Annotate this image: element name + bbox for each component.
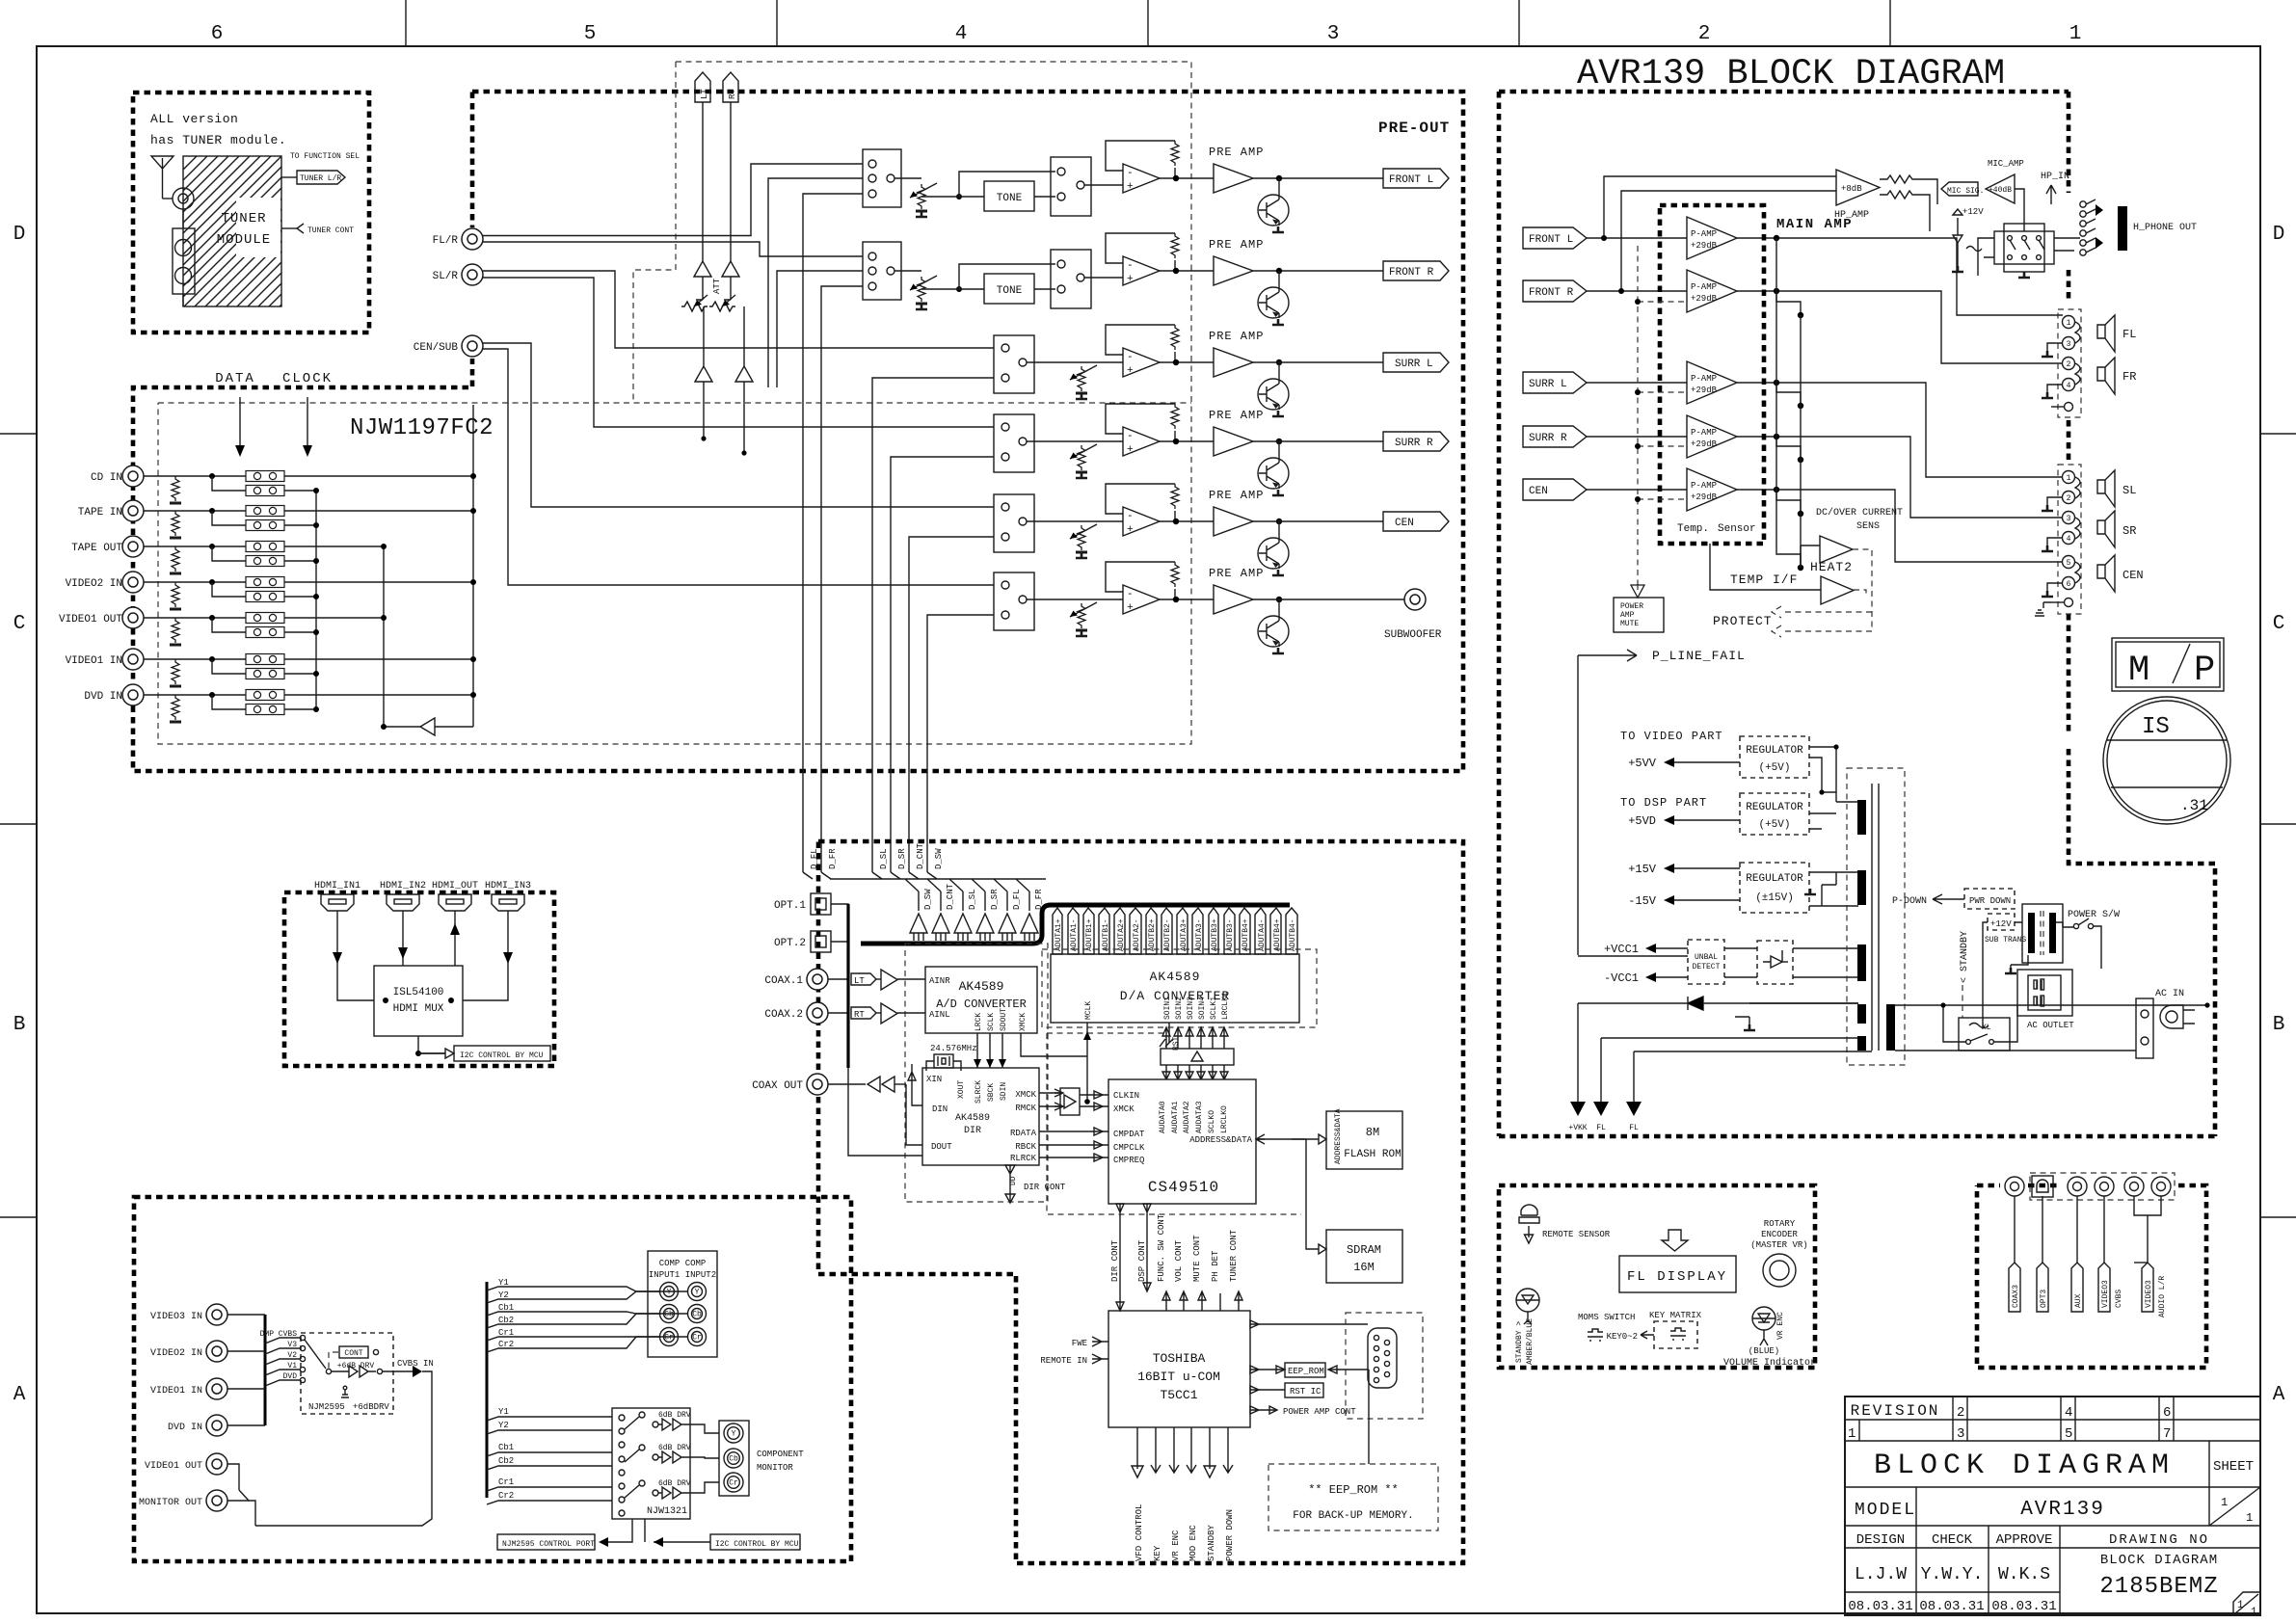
svg-text:W.K.S: W.K.S <box>1998 1565 2050 1584</box>
svg-text:+: + <box>1127 524 1134 536</box>
svg-text:P: P <box>2194 651 2215 691</box>
amplifier P-AMP <box>1687 361 1737 404</box>
svg-text:2185BEMZ: 2185BEMZ <box>2099 1574 2218 1600</box>
IC CS49510 DSP <box>1108 1079 1256 1204</box>
net flag SURR L <box>1523 372 1587 393</box>
svg-text:Cb2: Cb2 <box>498 1456 514 1466</box>
svg-text:2: 2 <box>2067 360 2071 369</box>
svg-text:OPT.2: OPT.2 <box>774 938 806 949</box>
svg-text:B: B <box>13 1014 26 1036</box>
svg-text:V2: V2 <box>287 1351 297 1360</box>
DSP section dashed enclosure <box>818 841 1463 1563</box>
COMP INPUT box <box>648 1251 717 1357</box>
pin DMP CVBS <box>300 1335 305 1340</box>
svg-text:2: 2 <box>1698 23 1711 45</box>
volume pot row SURR L <box>1076 366 1087 393</box>
input select switch row SUBW <box>994 572 1034 630</box>
svg-text:4: 4 <box>2065 1405 2072 1421</box>
svg-text:A/D CONVERTER: A/D CONVERTER <box>936 998 1027 1011</box>
svg-text:16M: 16M <box>1353 1261 1375 1274</box>
coupling links row VIDEO1 IN <box>246 654 284 665</box>
svg-text:VFD CONTROL: VFD CONTROL <box>1135 1504 1144 1561</box>
svg-text:+: + <box>1127 444 1134 456</box>
net label D_FR <box>821 872 831 879</box>
connector CEN/SUB <box>462 335 483 357</box>
svg-text:ADUTB2-: ADUTB2- <box>1163 918 1172 951</box>
svg-text:REGULATOR: REGULATOR <box>1746 873 1803 885</box>
dsp return wire <box>821 286 863 872</box>
connector OPT3 <box>2032 1176 2053 1197</box>
net flag LT <box>695 72 710 102</box>
svg-text:Y.W.Y.: Y.W.Y. <box>1921 1565 1984 1584</box>
connector COAX.2 <box>807 1002 828 1024</box>
svg-text:PWR DOWN: PWR DOWN <box>1969 896 2011 906</box>
connector DVD IN <box>122 684 144 705</box>
svg-text:+5VD: +5VD <box>1628 814 1656 828</box>
svg-text:COAX.1: COAX.1 <box>764 975 803 987</box>
COAX OUT buffers <box>828 1083 866 1085</box>
svg-text:TUNER: TUNER <box>221 211 266 226</box>
regulator +5V video <box>1740 736 1809 778</box>
svg-text:TUNER L/R: TUNER L/R <box>300 174 341 183</box>
hdmi wires <box>337 911 374 1000</box>
connector TAPE OUT <box>122 536 144 557</box>
svg-text:Cr: Cr <box>664 1334 674 1343</box>
svg-text:+12V: +12V <box>1990 919 2012 929</box>
svg-text:P-AMP: P-AMP <box>1691 229 1717 239</box>
svg-text:KEY: KEY <box>1153 1545 1162 1561</box>
amplifier P-AMP <box>1687 217 1737 259</box>
volume pot row FRONT L <box>916 184 927 211</box>
svg-text:BLOCK DIAGRAM: BLOCK DIAGRAM <box>2100 1553 2218 1568</box>
net flag SURR R <box>1383 432 1449 451</box>
pin flag ADUTB1+ <box>1083 908 1094 954</box>
DA converter dashed outline <box>1042 949 1317 1027</box>
antenna <box>151 156 174 169</box>
rectifier diode box <box>1757 941 1793 984</box>
pin V2 <box>300 1356 305 1361</box>
PWR DOWN dashed box <box>1964 889 2015 909</box>
svg-text:SURR R: SURR R <box>1395 438 1433 449</box>
secondary wires <box>1895 1005 2207 1051</box>
svg-text:+29dB: +29dB <box>1691 241 1718 251</box>
svg-text:CONT: CONT <box>344 1349 362 1358</box>
svg-text:ATT: ATT <box>712 278 722 294</box>
connector V3A <box>2124 1177 2144 1196</box>
wire to p-amp <box>1587 436 1687 438</box>
connector SUBWOOFER <box>1404 589 1426 610</box>
svg-text:3: 3 <box>1327 23 1340 45</box>
pin V3 <box>300 1345 305 1350</box>
IC SDRAM 16M <box>1326 1230 1402 1283</box>
POWER AMP MUTE box <box>1637 584 1639 591</box>
coupling links row VIDEO1 OUT <box>246 613 284 624</box>
svg-text:XIN: XIN <box>926 1075 942 1084</box>
svg-text:+15V: +15V <box>1628 863 1657 876</box>
IC AK4589 A/D converter <box>925 967 1037 1033</box>
svg-text:SURR R: SURR R <box>1529 433 1567 444</box>
svg-text:Y: Y <box>667 1289 672 1297</box>
mute dashed net <box>1638 246 1687 584</box>
svg-text:FL/R: FL/R <box>433 235 459 247</box>
terminal 2 <box>2063 492 2075 504</box>
aux terminal <box>2065 403 2073 412</box>
svg-text:CMPREQ: CMPREQ <box>1113 1156 1144 1165</box>
amplifier P-AMP <box>1687 270 1737 312</box>
svg-text:FL: FL <box>1596 1124 1606 1132</box>
svg-text:SURR L: SURR L <box>1395 359 1433 370</box>
terminal 3 <box>2063 337 2075 350</box>
svg-text:D_SW: D_SW <box>923 889 933 910</box>
svg-text:POWER S/W: POWER S/W <box>2068 909 2120 920</box>
resistor row VIDEO2 IN <box>170 582 181 609</box>
svg-text:ADUTA3-: ADUTA3- <box>1195 918 1204 951</box>
feedback resistor row SUBW <box>1171 562 1179 587</box>
TUNER L/R flag <box>281 176 297 178</box>
wire row DVD IN <box>144 694 473 696</box>
connector COAX3 <box>2005 1177 2024 1196</box>
ANALOG SECTION OUTLINES <box>133 62 1463 771</box>
net label D_SW <box>927 872 937 879</box>
svg-text:SHEET: SHEET <box>2213 1459 2254 1475</box>
connector comp Cr2 <box>688 1328 707 1346</box>
XMCK wire <box>1021 1033 1087 1056</box>
signal P_LINE_FAIL <box>1578 650 1637 661</box>
connector monitor Y <box>724 1423 743 1443</box>
connector comp Y1 <box>660 1283 679 1301</box>
wire to p-amp <box>1587 290 1687 292</box>
svg-text:AK4589: AK4589 <box>1150 970 1201 984</box>
terminal 5 <box>2063 556 2075 569</box>
svg-text:PRE AMP: PRE AMP <box>1209 409 1264 422</box>
svg-text:Y1: Y1 <box>498 1407 509 1417</box>
buffer LT <box>881 970 897 990</box>
svg-text:HDMI_IN3: HDMI_IN3 <box>485 881 531 891</box>
FL DISPLAY dashed enclosure <box>1499 1185 1815 1368</box>
svg-text:AK4589: AK4589 <box>959 979 1004 994</box>
svg-text:VR ENC: VR ENC <box>1171 1530 1181 1561</box>
signal VFD CONTROL <box>1132 1427 1143 1477</box>
LT flag <box>851 973 876 985</box>
volume pot row FRONT R <box>916 277 927 304</box>
terminal 2 <box>2063 358 2075 370</box>
svg-text:ADDRESS&DATA: ADDRESS&DATA <box>1189 1135 1252 1145</box>
svg-text:PRE AMP: PRE AMP <box>1209 489 1264 502</box>
svg-text:STANDBY: STANDBY <box>1207 1525 1216 1561</box>
volume pot row CEN <box>1076 525 1087 552</box>
net tag OPT3 <box>2042 1196 2043 1263</box>
pin flag ADUTB2- <box>1161 908 1172 954</box>
UNBAL DETECT <box>1688 940 1724 984</box>
TEMP I/F HEAT2 <box>1710 544 1821 590</box>
input select switch row FRONT R <box>863 242 901 300</box>
resistor row CD IN <box>170 476 181 503</box>
svg-text:3: 3 <box>2067 515 2071 523</box>
net label D_SL <box>872 872 882 879</box>
digital input bus <box>828 904 848 1013</box>
svg-text:FOR BACK-UP MEMORY.: FOR BACK-UP MEMORY. <box>1293 1510 1413 1522</box>
aux terminal 2 <box>2065 599 2073 607</box>
CS area dashed outline <box>1047 1033 1301 1214</box>
svg-text:SLRCK: SLRCK <box>974 1080 983 1104</box>
connector FL/R <box>462 228 483 250</box>
winding <box>1857 945 1866 981</box>
wire address bus <box>1256 1138 1319 1140</box>
svg-text:SUB TRANS: SUB TRANS <box>1985 936 2026 945</box>
svg-text:V1: V1 <box>287 1362 297 1370</box>
transformer core <box>1872 784 1879 1051</box>
relay block <box>1994 231 2054 264</box>
wire SL speaker <box>1779 383 2063 477</box>
connector VIDEO3 <box>2095 1177 2114 1196</box>
connector COAX.1 <box>807 969 828 990</box>
svg-text:ADUTB1-: ADUTB1- <box>1102 918 1110 951</box>
buffer transistor row SURR R <box>1278 441 1280 458</box>
DATA CLOCK labels and arrows <box>215 371 494 457</box>
svg-text:D_SL: D_SL <box>968 889 977 910</box>
net label D_CNT <box>909 872 919 879</box>
regulator +-15V <box>1740 863 1809 913</box>
svg-text:AUX: AUX <box>2074 1293 2083 1308</box>
svg-text:D_FL: D_FL <box>1012 889 1022 910</box>
amplifier P-AMP <box>1687 415 1737 458</box>
svg-text:AUDIO L/R: AUDIO L/R <box>2158 1276 2167 1317</box>
connector VIDEO3 IN <box>206 1304 227 1325</box>
svg-text:SUBWOOFER: SUBWOOFER <box>1384 629 1442 641</box>
svg-text:Cr2: Cr2 <box>498 1491 514 1501</box>
buffer RT <box>881 1003 897 1024</box>
svg-text:DC/OVER CURRENT: DC/OVER CURRENT <box>1816 507 1903 519</box>
svg-text:-VCC1: -VCC1 <box>1604 971 1639 985</box>
TUNER CONT <box>281 227 297 229</box>
svg-text:A: A <box>2273 1384 2285 1406</box>
input wires row FRONT R <box>483 242 863 256</box>
svg-text:P-AMP: P-AMP <box>1691 374 1717 384</box>
wire to p-amp <box>1587 489 1687 491</box>
control port wires <box>608 1519 645 1542</box>
wire to pot <box>1027 361 1081 363</box>
svg-text:TUNER CONT: TUNER CONT <box>1229 1229 1239 1282</box>
wire FRONT L to HP amp <box>1604 176 1836 238</box>
svg-text:C: C <box>2273 613 2285 635</box>
svg-text:STANDBY >: STANDBY > <box>1515 1321 1524 1363</box>
feedback resistor row CEN <box>1171 484 1179 509</box>
svg-text:COMPONENT: COMPONENT <box>757 1450 804 1459</box>
clock buffer <box>1060 1088 1080 1115</box>
svg-text:C: C <box>13 613 26 635</box>
pin flag ADUTB3+ <box>1209 908 1218 954</box>
svg-text:VOL CONT: VOL CONT <box>1174 1239 1184 1282</box>
svg-text:APPROVE: APPROVE <box>1996 1532 2053 1548</box>
svg-text:XL: XL <box>1982 1024 1991 1032</box>
top zone ticks <box>405 0 407 46</box>
svg-text:(+5V): (+5V) <box>1758 819 1790 831</box>
COMPONENT MONITOR connectors <box>719 1421 749 1496</box>
op-amp row SUBW <box>1123 585 1160 614</box>
wire to p-amp <box>1587 382 1687 384</box>
svg-text:+8dB: +8dB <box>1841 184 1862 194</box>
svg-text:AK4589: AK4589 <box>955 1113 990 1124</box>
FL DISPLAY block <box>1619 1256 1736 1292</box>
driver buffers <box>332 1366 376 1377</box>
svg-text:HDMI_IN1: HDMI_IN1 <box>314 881 360 891</box>
svg-text:OPT3: OPT3 <box>2040 1290 2048 1308</box>
svg-text:DIR: DIR <box>964 1126 981 1136</box>
IC AK4589 DIR <box>922 1068 1039 1165</box>
wire row VIDEO1 OUT <box>144 617 384 619</box>
feedback resistor row SURR R <box>1171 404 1179 429</box>
svg-text:CLKIN: CLKIN <box>1113 1091 1139 1101</box>
IC NJW1321 <box>612 1408 690 1519</box>
buffer B1 <box>435 726 473 728</box>
buffer D_SL <box>954 914 972 933</box>
pin flag ADUTA1- <box>1068 908 1079 954</box>
svg-text:1: 1 <box>2067 474 2071 483</box>
wire to sdram <box>1306 1139 1319 1249</box>
svg-text:AUDATA1: AUDATA1 <box>1171 1101 1180 1133</box>
svg-text:AINL: AINL <box>929 1010 950 1020</box>
svg-text:(+5V): (+5V) <box>1758 762 1790 774</box>
wire AD pins down <box>977 1033 1002 1068</box>
svg-text:+: + <box>1127 274 1134 285</box>
svg-text:POWER: POWER <box>1620 602 1643 611</box>
svg-text:HEAT2: HEAT2 <box>1810 560 1853 574</box>
terminal 4 <box>2063 532 2075 545</box>
svg-text:DRAWING NO: DRAWING NO <box>2109 1532 2209 1548</box>
svg-text:VOLUME Indicator: VOLUME Indicator <box>1723 1357 1816 1369</box>
svg-text:+29dB: +29dB <box>1691 439 1718 449</box>
svg-text:1: 1 <box>1848 1426 1855 1442</box>
svg-text:8M: 8M <box>1366 1126 1379 1139</box>
pin V1 <box>300 1367 305 1371</box>
svg-text:L.J.W: L.J.W <box>1855 1565 1907 1584</box>
node bus vertical x=398 <box>383 546 385 727</box>
feedback resistor row FRONT L <box>1171 141 1179 166</box>
svg-text:6: 6 <box>2067 580 2071 589</box>
svg-text:Sensor: Sensor <box>1718 523 1756 535</box>
svg-text:+6dB DRV: +6dB DRV <box>337 1362 375 1370</box>
connector monitor Cr <box>724 1473 743 1492</box>
svg-text:DVD IN: DVD IN <box>84 691 122 703</box>
i2c control <box>418 1036 445 1053</box>
svg-text:ADUTB3-: ADUTB3- <box>1226 918 1235 951</box>
dsp return wire CEN <box>909 537 994 872</box>
svg-text:+VCC1: +VCC1 <box>1604 943 1639 956</box>
buffer transistor row SUBW <box>1278 599 1280 616</box>
svg-text:ADUTA1-: ADUTA1- <box>1070 918 1079 951</box>
svg-text:T5CC1: T5CC1 <box>1160 1388 1197 1402</box>
svg-text:TO VIDEO PART: TO VIDEO PART <box>1620 730 1723 743</box>
svg-text:D: D <box>13 224 26 246</box>
svg-text:1: 1 <box>2221 1496 2228 1509</box>
svg-text:MIC_AMP: MIC_AMP <box>1988 159 2024 169</box>
RF connector <box>173 188 194 209</box>
wire row TAPE IN <box>144 510 473 512</box>
IC 8M FLASH ROM <box>1326 1111 1402 1169</box>
svg-text:D_SL: D_SL <box>879 848 889 869</box>
svg-text:ADUTA2+: ADUTA2+ <box>1117 918 1126 951</box>
svg-text:CMPCLK: CMPCLK <box>1113 1143 1145 1153</box>
svg-text:ADUTB4+: ADUTB4+ <box>1273 918 1282 951</box>
pin flag ADUTB4+ <box>1270 908 1281 954</box>
svg-text:D_SW: D_SW <box>934 848 944 869</box>
wire to lower buffers <box>704 306 744 366</box>
buffer D_SR <box>976 914 994 933</box>
wires DB9 to MCU <box>1250 1320 1368 1328</box>
svg-text:Cb1: Cb1 <box>498 1443 514 1452</box>
buffer transistor row FRONT L <box>1278 178 1280 195</box>
net flag FRONT R <box>1383 261 1449 280</box>
resistors HP out <box>1880 175 1920 183</box>
buffer transistor row SURR L <box>1278 362 1280 379</box>
wires DIR to CS <box>1039 1093 1108 1157</box>
net tag VIDEO3 <box>2134 1196 2161 1263</box>
net flag FRONT L <box>1383 169 1449 188</box>
svg-text:AUDATA0: AUDATA0 <box>1159 1101 1167 1133</box>
speaker terminal block SL/SR/CEN <box>2058 465 2081 614</box>
svg-text:ADUTA4-: ADUTA4- <box>1258 918 1267 951</box>
VKK FL FL feeds <box>1578 1003 1634 1102</box>
svg-text:RST: RST <box>1172 1036 1181 1051</box>
node and tone feed <box>956 194 962 200</box>
net label D_CNT buffer <box>927 879 941 891</box>
svg-text:1: 1 <box>2067 319 2071 328</box>
block diagram row <box>2208 1441 2210 1487</box>
IC AK4589 D/A converter <box>1051 954 1299 1023</box>
net flag CEN <box>1383 512 1449 531</box>
svg-text:H_PHONE OUT: H_PHONE OUT <box>2133 223 2197 233</box>
connector DVD IN <box>206 1415 227 1436</box>
svg-text:1: 1 <box>2069 23 2082 45</box>
pin flag ADUTB4+ <box>1240 908 1250 954</box>
svg-text:COAX3: COAX3 <box>2012 1285 2020 1308</box>
svg-text:+40dB: +40dB <box>1989 186 2012 195</box>
box RST IC <box>1285 1383 1323 1397</box>
svg-text:MODULE: MODULE <box>217 232 271 248</box>
wire row TAPE OUT <box>144 545 384 547</box>
net flag SURR L <box>1383 353 1449 372</box>
svg-text:6: 6 <box>2163 1405 2171 1421</box>
pin flag ADUTA3- <box>1192 908 1203 954</box>
svg-text:TAPE OUT: TAPE OUT <box>71 543 122 554</box>
svg-text:Cr: Cr <box>692 1334 702 1343</box>
svg-text:P-AMP: P-AMP <box>1691 282 1717 292</box>
svg-text:A: A <box>13 1384 26 1406</box>
svg-text:IS: IS <box>2142 714 2170 740</box>
MAIN AMP dashed enclosure <box>1499 92 2215 1136</box>
video1 out / monitor out wires <box>227 1464 249 1501</box>
speaker CEN <box>2097 555 2115 592</box>
pin flag ADUTA1+ <box>1053 908 1062 954</box>
INPUT MATRIX <box>316 405 473 735</box>
svg-text:MOMS SWITCH: MOMS SWITCH <box>1578 1313 1635 1322</box>
op-amp row FRONT L <box>1123 164 1160 193</box>
analog input wire SUBW <box>483 349 994 585</box>
svg-text:RT: RT <box>854 1010 865 1020</box>
transformer dashed box <box>1847 768 1905 1065</box>
svg-text:P-AMP: P-AMP <box>1691 428 1717 438</box>
wire to p-amp <box>1587 237 1687 239</box>
terminal 4 <box>2063 379 2075 391</box>
dashed enclosure ALL version has TUNER module <box>133 93 369 333</box>
svg-text:PH DET: PH DET <box>1211 1250 1220 1282</box>
switch group Cb <box>639 1445 645 1450</box>
connector COAX OUT <box>807 1074 828 1095</box>
coupling links row TAPE IN <box>246 506 284 517</box>
pin flag ADUTA3+ <box>1177 908 1188 954</box>
svg-text:6dB DRV: 6dB DRV <box>658 1479 691 1488</box>
IC TOSHIBA 16BIT u-COM T5CC1 <box>1108 1311 1250 1427</box>
